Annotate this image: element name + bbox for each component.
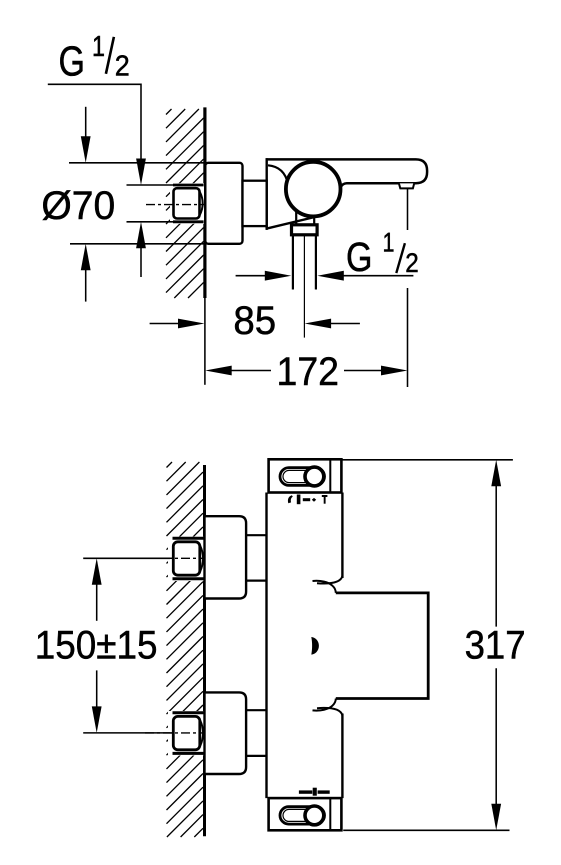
svg-text:2: 2 xyxy=(115,50,130,82)
body shoulder curve xyxy=(268,165,288,184)
white backing top union (front) xyxy=(168,537,204,582)
svg-text:317: 317 xyxy=(465,624,526,668)
icon row under top block xyxy=(288,495,327,505)
G1/2 lower arrow (up, at nut bottom) xyxy=(136,222,146,249)
body wedge bottom slant xyxy=(266,217,315,229)
fillet hook bottom xyxy=(317,708,342,715)
white backing behind union nut (side view) xyxy=(170,183,204,224)
svg-text:150±15: 150±15 xyxy=(35,624,158,668)
svg-text:1: 1 xyxy=(92,31,105,63)
fillet hook top xyxy=(317,576,342,583)
body column right edge lower xyxy=(341,714,343,799)
O70 dimension arrow down xyxy=(85,107,87,138)
top knob circle xyxy=(305,467,324,486)
O70 dimension arrow up xyxy=(81,244,91,270)
stem between flange and body xyxy=(243,181,267,226)
top union nut centerline dash xyxy=(145,557,204,559)
G1/2 leader arrow (down, at nut top) xyxy=(136,159,146,186)
cartridge circle (mixer body) xyxy=(286,162,341,217)
172 dimension line and arrows xyxy=(205,366,232,376)
union nut extension lines (G1/2 dim) xyxy=(127,184,174,186)
top handle block xyxy=(269,459,342,492)
body column left edge xyxy=(265,493,267,799)
wall face line (side view) xyxy=(203,107,206,298)
bottom capsule slot xyxy=(280,807,325,824)
connectors escutcheon-to-body top xyxy=(246,534,266,536)
outlet pipe walls xyxy=(292,235,294,290)
body column right edge upper xyxy=(341,493,343,579)
bottom capsule inner line xyxy=(283,809,322,821)
317 dimension arrows xyxy=(491,460,501,487)
aerator tab under handle xyxy=(399,183,414,188)
svg-text:85: 85 xyxy=(233,299,276,343)
escutcheon flange (side view) xyxy=(205,163,242,244)
G1/2 outlet dimension right arrow xyxy=(317,271,344,281)
union adapter arc (side view) xyxy=(200,192,203,215)
top union adapter arc xyxy=(200,546,203,571)
svg-text:2: 2 xyxy=(405,248,419,278)
outlet collar xyxy=(292,225,318,235)
G1/2 leader line xyxy=(48,84,141,160)
union centerline top (150 dim extension) xyxy=(83,557,170,559)
fillet curve bottom xyxy=(313,699,336,711)
wall hatching (side view) xyxy=(166,109,204,298)
extension line, escutcheon top (O70) xyxy=(69,162,205,164)
bottom union nut flats (front) xyxy=(173,711,205,714)
svg-text:G: G xyxy=(346,234,373,280)
connectors escutcheon-to-body bottom xyxy=(246,709,266,711)
svg-text:172: 172 xyxy=(277,350,340,394)
top block divider xyxy=(329,460,331,492)
G1/2 top fraction slash xyxy=(106,37,114,74)
top capsule slot xyxy=(280,468,325,486)
G1/2 outlet fraction slash xyxy=(396,243,405,273)
bottom union nut (front) xyxy=(173,716,200,749)
icon row above bottom block xyxy=(299,788,330,796)
body wedge left edge xyxy=(266,158,268,230)
thermostat wide box xyxy=(336,593,428,699)
svg-text:1: 1 xyxy=(383,228,395,258)
bottom knob circle xyxy=(305,806,324,825)
union nut flats (side view) xyxy=(173,184,204,187)
fillet curve top xyxy=(313,581,336,593)
G1/2 top label text xyxy=(59,31,130,84)
bottom handle block xyxy=(269,798,342,830)
85 dimension left arrow (at wall) xyxy=(150,323,178,325)
85 dimension right arrow (at pipe center) xyxy=(305,319,332,329)
union centerline bottom (150 dim extension) xyxy=(83,732,170,734)
union nut centerline (dash-dot) xyxy=(146,204,204,206)
wall face line (front view) xyxy=(203,465,206,836)
union nut (side view) xyxy=(174,188,200,218)
317 extension line bottom xyxy=(343,829,509,831)
wall face extension line (for 85 and 172 dims) xyxy=(204,298,206,385)
150±15 dimension arrows xyxy=(92,558,102,585)
lever handle xyxy=(266,159,428,187)
top escutcheon (front view) xyxy=(205,516,247,598)
wall hatching (front view) xyxy=(167,462,204,837)
extension line, escutcheon bottom (O70) xyxy=(70,243,205,245)
top union nut flats (front) xyxy=(173,537,205,540)
bottom union adapter arc xyxy=(200,720,203,745)
top capsule inner line xyxy=(283,470,322,482)
center spout blob xyxy=(311,637,319,655)
top union nut (front) xyxy=(173,542,200,575)
G1/2 outlet label text xyxy=(346,228,419,280)
svg-text:Ø70: Ø70 xyxy=(41,184,115,228)
bottom block divider xyxy=(329,799,331,830)
aerator extension line (172 dim) lower segment xyxy=(407,288,409,387)
317 extension line top xyxy=(342,459,513,461)
bottom escutcheon (front view) xyxy=(205,692,247,774)
bottom union nut centerline dash xyxy=(145,732,204,734)
svg-text:G: G xyxy=(59,37,86,84)
spout neck below circle xyxy=(295,210,297,226)
G1/2 outlet dimension left arrow xyxy=(236,275,265,277)
aerator extension line (172 dim) upper segment xyxy=(407,188,409,230)
white backing bottom union (front) xyxy=(168,711,204,756)
outlet pipe centerline / 85 extension xyxy=(303,235,305,338)
